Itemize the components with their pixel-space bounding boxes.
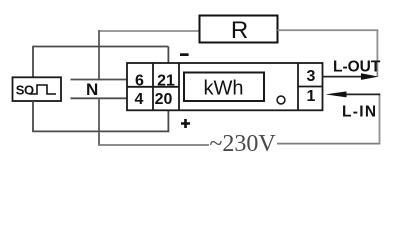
pulse output SO box (13, 77, 62, 101)
wire: SO bottom vertical (32, 101, 34, 132)
wire: L-OUT riser vertical (376, 30, 378, 77)
svg-text:L-OUT: L-OUT (333, 58, 381, 75)
wire: bottom 230V wire right part (277, 143, 380, 145)
terminal grid divider vertical x=179 (178, 63, 180, 110)
svg-text:kWh: kWh (204, 78, 244, 100)
terminal grid divider vertical x=153 (152, 63, 154, 110)
pulse waveform symbol (30, 85, 57, 94)
wire: neutral lead to terminal 6 (71, 79, 128, 81)
svg-text:1: 1 (307, 88, 316, 105)
wire: drop from terminal 20 (167, 110, 169, 132)
wire: N rail vertical top segment (98, 30, 100, 80)
svg-text:N: N (86, 80, 98, 99)
svg-text:SO: SO (16, 82, 34, 97)
resistor R1 box (200, 16, 278, 43)
svg-text:~230V: ~230V (209, 131, 276, 157)
L-OUT arrowhead (361, 73, 379, 80)
minus sign label (180, 53, 189, 56)
svg-text:3: 3 (307, 68, 316, 85)
terminal grid divider horizontal left block (127, 86, 179, 88)
wire: L-IN line (340, 93, 380, 95)
svg-text:20: 20 (155, 91, 173, 108)
wire: drop into terminal 21 (167, 47, 169, 64)
kWh display box (184, 73, 264, 102)
wire: N rail vertical bottom segment (98, 98, 100, 146)
wire: bottom 230V wire left part (98, 144, 209, 146)
wire: L-OUT line from terminal 3 (323, 76, 365, 78)
wire: SO plus wire bottom horizontal to terminal 20 (32, 130, 169, 132)
terminal block right divider vertical x=298 (297, 63, 299, 110)
svg-text:R: R (231, 17, 248, 44)
wire: L-IN riser vertical (379, 94, 381, 144)
L-IN arrowhead (326, 91, 347, 97)
svg-text:4: 4 (135, 91, 144, 108)
terminal grid divider horizontal right block (298, 86, 323, 88)
wire: SO minus wire horizontal from SO box top to terminal 21 (33, 46, 168, 48)
wire: SO top vertical (32, 46, 34, 78)
wire: R left lead from node N rail top corner to R box (98, 30, 200, 32)
svg-text:L-IN: L-IN (342, 103, 377, 120)
plus sign label (181, 119, 190, 128)
svg-text:21: 21 (157, 72, 175, 89)
wire: neutral lead to terminal 4 (71, 97, 128, 99)
kWh meter U1 body (127, 63, 323, 110)
wire: R right lead to L-OUT riser (278, 29, 379, 31)
meter indicator circle (277, 96, 285, 104)
svg-text:6: 6 (135, 72, 144, 89)
